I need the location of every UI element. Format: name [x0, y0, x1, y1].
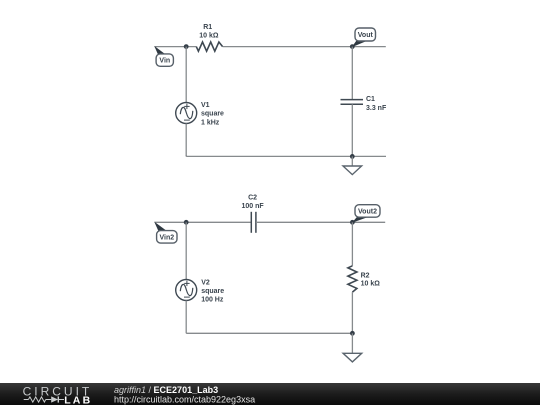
svg-text:100 nF: 100 nF	[242, 203, 265, 210]
label V1 value	[201, 102, 224, 126]
svg-text:V2: V2	[201, 280, 210, 287]
wire R2 bottom lead	[351, 292, 353, 333]
label C2 value	[242, 195, 265, 210]
wire top-left Vin2 to C2	[155, 221, 252, 223]
wire R1 to right end	[223, 46, 386, 48]
wire C1 top lead	[351, 47, 353, 100]
ground top circuit	[343, 156, 362, 174]
svg-text:10 kΩ: 10 kΩ	[361, 281, 381, 288]
svg-text:C1: C1	[366, 96, 375, 103]
node junction Vin/V1	[184, 44, 189, 49]
resistor R1	[196, 42, 222, 51]
node junction ground top circuit	[350, 154, 355, 159]
wire R2 top lead	[351, 222, 353, 265]
voltage source V1	[176, 103, 197, 124]
voltage source V2	[176, 280, 197, 301]
svg-text:http://circuitlab.com/ctab922e: http://circuitlab.com/ctab922eg3xsa	[114, 395, 255, 405]
capacitor C2	[251, 212, 256, 233]
svg-text:agriffin1 / ECE2701_Lab3: agriffin1 / ECE2701_Lab3	[114, 385, 218, 395]
svg-text:V1: V1	[201, 102, 210, 109]
capacitor C1	[341, 100, 364, 105]
footer title text	[114, 385, 218, 395]
wire V1 bottom lead	[185, 124, 187, 157]
logo schematic line with resistor and diode	[24, 396, 64, 402]
wire V1 top lead	[185, 47, 187, 103]
flag Vin2	[154, 222, 177, 244]
logo LAB text	[64, 394, 92, 405]
svg-text:10 kΩ: 10 kΩ	[199, 32, 219, 39]
node junction Vout/C1	[350, 44, 355, 49]
label R2 value	[361, 272, 381, 287]
svg-text:LAB: LAB	[64, 394, 92, 405]
footer url text	[114, 395, 255, 405]
label C1 value	[366, 96, 387, 112]
resistor R2	[348, 266, 357, 292]
svg-text:1 kHz: 1 kHz	[201, 119, 220, 126]
svg-text:square: square	[201, 288, 224, 295]
node junction ground bottom circuit	[350, 331, 355, 336]
flag Vout2	[352, 205, 380, 223]
label V2 value	[201, 280, 224, 304]
node junction Vin2/V2	[184, 220, 189, 225]
wire bottom of bottom circuit	[186, 332, 352, 334]
wire C2 to right end	[256, 221, 385, 223]
svg-text:C2: C2	[248, 195, 257, 202]
wire V2 bottom lead	[185, 301, 187, 334]
svg-text:Vin: Vin	[159, 58, 170, 65]
svg-text:R2: R2	[361, 272, 370, 279]
CircuitLab logo wordmark	[23, 385, 93, 399]
svg-text:R1: R1	[203, 24, 212, 31]
svg-text:square: square	[201, 111, 224, 118]
flag Vin	[154, 46, 173, 66]
node junction Vout2/R2	[350, 220, 355, 225]
svg-text:100 Hz: 100 Hz	[201, 297, 224, 304]
wire C1 bottom lead	[351, 104, 353, 156]
svg-text:3.3 nF: 3.3 nF	[366, 105, 387, 112]
wire top-left Vin to R1	[155, 46, 197, 48]
footer bar	[0, 383, 540, 405]
ground bottom circuit	[343, 333, 362, 362]
flag Vout	[352, 28, 376, 47]
svg-text:Vout2: Vout2	[358, 209, 377, 216]
svg-text:Vout: Vout	[358, 32, 374, 39]
wire bottom of top circuit	[186, 155, 386, 156]
label R1 value	[199, 24, 219, 39]
wire V2 top lead	[185, 222, 187, 279]
svg-text:Vin2: Vin2	[159, 234, 174, 241]
